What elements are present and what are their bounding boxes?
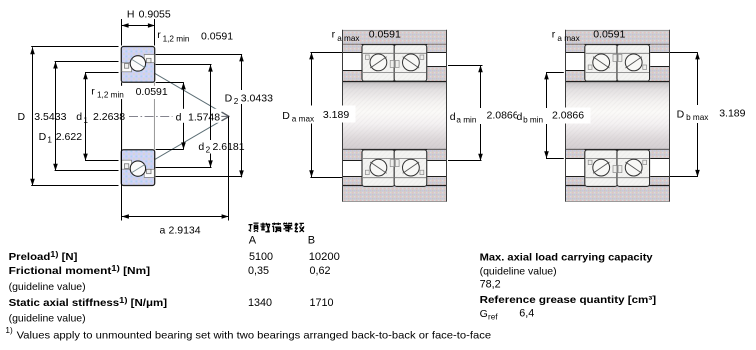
svg-text:D: D xyxy=(282,110,290,122)
housing shoulder left xyxy=(343,44,362,52)
housing shoulder left xyxy=(566,44,585,52)
dimension Db max xyxy=(670,52,746,176)
housing shoulder right xyxy=(427,44,446,52)
svg-text:(guideline value): (guideline value) xyxy=(9,281,86,293)
svg-text:1): 1) xyxy=(5,326,13,335)
bearing upper section: rings xyxy=(121,47,154,83)
bearing pair top row xyxy=(585,45,650,82)
svg-text:a max: a max xyxy=(292,114,314,123)
row: Static axial stiffness xyxy=(9,295,334,309)
svg-text:B: B xyxy=(308,234,315,246)
svg-text:d: d xyxy=(76,111,82,123)
contact line lower xyxy=(124,116,229,177)
left figure: bearing cross-section xyxy=(18,9,275,237)
svg-text:0,62: 0,62 xyxy=(310,265,331,277)
shaft spacer ring top-right xyxy=(427,67,446,82)
svg-text:D: D xyxy=(225,92,233,104)
svg-text:1,2 min: 1,2 min xyxy=(163,35,190,44)
svg-text:0,35: 0,35 xyxy=(248,265,269,277)
svg-text:3.189: 3.189 xyxy=(323,109,349,121)
shaft spacer ring bottom-right xyxy=(427,150,446,161)
svg-text:(quideline value): (quideline value) xyxy=(480,265,557,277)
bearing pair bottom row xyxy=(585,150,650,187)
svg-text:1,2 min: 1,2 min xyxy=(97,91,124,100)
svg-text:0.0591: 0.0591 xyxy=(136,86,168,98)
housing bottom shoulder right xyxy=(427,177,446,186)
svg-text:2.2638: 2.2638 xyxy=(93,111,125,123)
svg-text:5100: 5100 xyxy=(249,251,273,263)
table: preload class header (Chinese) xyxy=(249,223,305,233)
shaft spacer ring top-right xyxy=(650,67,669,82)
svg-text:D: D xyxy=(39,131,47,143)
svg-text:2.9134: 2.9134 xyxy=(169,225,201,237)
footnote xyxy=(5,326,491,342)
shaft spacer ring bottom-right xyxy=(650,150,669,159)
svg-text:0.0591: 0.0591 xyxy=(369,29,401,41)
shaft xyxy=(343,81,447,149)
ball lower xyxy=(130,161,145,176)
svg-text:D: D xyxy=(18,111,26,123)
svg-text:(guideline value): (guideline value) xyxy=(9,312,86,324)
dimension db min xyxy=(517,72,591,158)
row: Preload xyxy=(9,249,340,263)
svg-text:Values apply to unmounted bear: Values apply to unmounted bearing set wi… xyxy=(17,330,492,342)
svg-text:0.9055: 0.9055 xyxy=(139,9,171,21)
svg-text:3.0433: 3.0433 xyxy=(241,92,273,104)
label ra max (middle fig) xyxy=(332,28,401,42)
label ra max (right fig) xyxy=(552,28,626,42)
bearing lower section: rings xyxy=(121,150,154,186)
svg-text:0.0591: 0.0591 xyxy=(201,31,233,43)
svg-text:78,2: 78,2 xyxy=(480,279,501,291)
inner ring recess (upper left) xyxy=(122,160,132,169)
body side edges xyxy=(342,30,344,202)
svg-text:1: 1 xyxy=(47,135,52,144)
svg-text:3.189: 3.189 xyxy=(719,108,745,120)
svg-text:2.0866: 2.0866 xyxy=(552,110,584,122)
svg-text:d: d xyxy=(198,141,204,153)
svg-text:6,4: 6,4 xyxy=(519,307,534,319)
bearing pair top row xyxy=(362,45,427,82)
pressure centre apex xyxy=(218,112,229,121)
label r1,2 min (second) xyxy=(89,86,169,100)
right column: max axial load xyxy=(480,251,653,263)
shaft xyxy=(566,81,670,149)
shaft spacer ring bottom-left xyxy=(343,150,362,161)
housing top band xyxy=(566,30,670,45)
svg-text:d: d xyxy=(176,111,182,123)
dimension D xyxy=(18,47,119,186)
dimension D2 xyxy=(156,54,274,177)
dimension D1 xyxy=(39,62,119,171)
label r1,2 min (top) xyxy=(157,29,233,43)
ball upper xyxy=(130,56,145,71)
table column headers A B xyxy=(249,234,315,246)
dimension H xyxy=(122,9,171,46)
svg-text:b max: b max xyxy=(686,113,708,122)
contact line upper xyxy=(124,55,229,116)
svg-text:0.0591: 0.0591 xyxy=(593,29,625,41)
svg-text:1340: 1340 xyxy=(248,297,272,309)
svg-text:A: A xyxy=(249,234,257,246)
centerline axis xyxy=(129,116,174,118)
svg-text:10200: 10200 xyxy=(309,251,340,263)
svg-text:2.0866: 2.0866 xyxy=(487,110,519,122)
svg-text:d: d xyxy=(517,111,523,123)
svg-text:a: a xyxy=(160,225,166,237)
housing bottom band xyxy=(343,185,447,201)
housing bottom shoulder left xyxy=(566,177,585,186)
svg-text:a max: a max xyxy=(557,34,579,43)
svg-text:Reference grease quantity [cm³: Reference grease quantity [cm³] xyxy=(480,294,656,306)
svg-text:r: r xyxy=(157,29,161,41)
middle figure: back-to-back mounting xyxy=(280,28,519,201)
svg-text:r: r xyxy=(552,28,556,40)
bearing pair bottom row xyxy=(362,150,427,187)
bearing bore face lines xyxy=(121,82,123,149)
dimension d xyxy=(156,82,222,149)
svg-text:D: D xyxy=(677,108,685,120)
right column: Gref 6,4 xyxy=(480,307,535,321)
svg-text:2.622: 2.622 xyxy=(56,131,82,143)
housing bottom band xyxy=(566,185,670,201)
housing shoulder right xyxy=(650,44,669,52)
inner ring recess (lower left) xyxy=(122,63,132,72)
row: Frictional moment xyxy=(9,263,331,277)
svg-text:r: r xyxy=(91,86,95,98)
svg-text:3.5433: 3.5433 xyxy=(34,111,66,123)
outer ring recess (lower right) xyxy=(144,169,154,177)
svg-text:a max: a max xyxy=(337,34,359,43)
svg-text:ref: ref xyxy=(488,312,498,321)
svg-text:1710: 1710 xyxy=(310,297,334,309)
housing bottom shoulder right xyxy=(650,177,669,186)
svg-text:d: d xyxy=(450,111,456,123)
svg-text:a min: a min xyxy=(456,116,476,125)
dimension da min xyxy=(448,65,519,161)
dimension d1 xyxy=(76,72,125,160)
shaft spacer ring top-left xyxy=(566,71,585,82)
svg-text:2: 2 xyxy=(206,146,211,155)
body side edges xyxy=(565,30,567,202)
svg-text:2: 2 xyxy=(234,97,239,106)
shaft spacer ring top-left xyxy=(343,71,362,82)
dimension a xyxy=(122,82,229,236)
svg-text:Max. axial load carrying capac: Max. axial load carrying capacity xyxy=(480,251,653,263)
svg-text:1: 1 xyxy=(83,116,88,125)
housing top band xyxy=(343,30,447,45)
dimension d2 xyxy=(156,65,246,168)
svg-text:Preload1) [N]: Preload1) [N] xyxy=(9,249,78,263)
svg-text:H: H xyxy=(127,9,135,21)
housing bottom shoulder left xyxy=(343,177,362,186)
right figure: face-to-face mounting xyxy=(517,28,746,201)
svg-text:r: r xyxy=(332,28,336,40)
svg-text:b min: b min xyxy=(523,116,543,125)
svg-text:G: G xyxy=(480,308,488,320)
svg-text:Frictional moment1) [Nm]: Frictional moment1) [Nm] xyxy=(9,263,150,277)
dimension Da max xyxy=(280,52,356,177)
outer ring recess (upper right) xyxy=(144,55,154,63)
svg-text:1.5748: 1.5748 xyxy=(188,111,220,123)
svg-text:Static axial stiffness1) [N/μm: Static axial stiffness1) [N/μm] xyxy=(9,295,168,309)
shaft spacer ring bottom-left xyxy=(566,150,585,159)
